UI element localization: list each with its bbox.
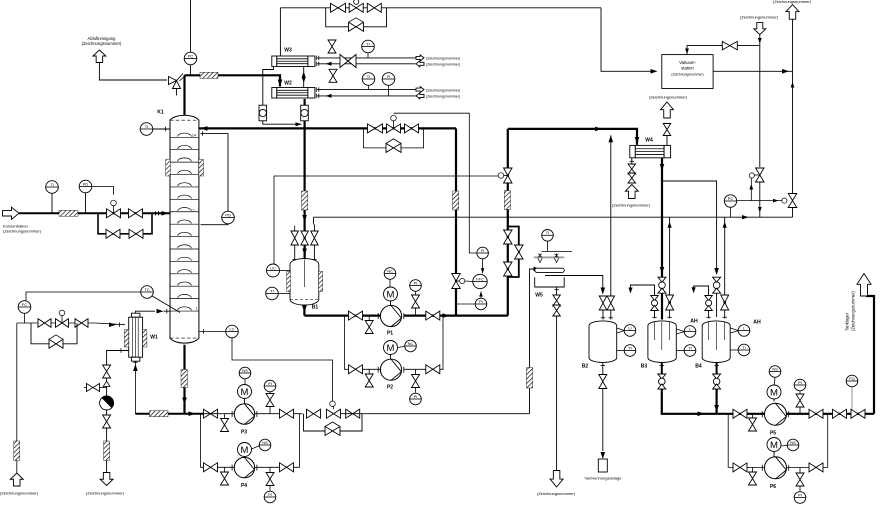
label AH B3 xyxy=(690,319,698,325)
svg-text:FC: FC xyxy=(22,302,27,307)
pipe: manifold to W1 xyxy=(95,322,125,327)
arrow bottoms down xyxy=(182,398,187,405)
instrument PD xyxy=(222,211,235,224)
valve feed block xyxy=(129,209,143,218)
pipe: TI W5 stub xyxy=(542,241,573,251)
Vakuum-station box xyxy=(662,55,713,89)
text (Zeichnungsnummer) W5 drain xyxy=(537,491,576,496)
pipe: B2 drain xyxy=(601,363,605,376)
instrument FI W2 xyxy=(382,73,395,86)
arrow feed into column xyxy=(162,211,169,216)
instrument PC (column pressure) xyxy=(184,52,197,65)
column K1 jacket hatch right xyxy=(199,160,204,177)
valve below PI P5 xyxy=(796,391,804,414)
pipe: B3 vent left lower xyxy=(652,311,656,319)
hatch on condensate drop xyxy=(302,191,308,210)
pump P3 xyxy=(232,404,257,424)
svg-text:P4: P4 xyxy=(241,483,247,489)
svg-text:NS: NS xyxy=(772,366,778,371)
svg-text:B2: B2 xyxy=(582,364,589,370)
hatch on feed line xyxy=(59,210,78,216)
text Verbrennungsanlage xyxy=(585,476,623,481)
column K1 shell xyxy=(170,115,199,343)
pipe LC tap xyxy=(199,329,226,333)
valve below PI P3 xyxy=(266,392,274,414)
vapor link W3-W2 xyxy=(302,67,306,88)
tray number 7 xyxy=(192,209,194,213)
pipe: feed manifold main xyxy=(98,212,152,214)
signal: FI to reflux control valve xyxy=(394,113,477,253)
svg-text:LC: LC xyxy=(229,326,234,331)
svg-text:M: M xyxy=(770,387,778,398)
pipe: W3 drain to trap xyxy=(263,67,274,106)
pipe: P2 suction branch xyxy=(345,316,381,370)
svg-text:TI: TI xyxy=(367,74,371,79)
pump P2 xyxy=(378,359,404,380)
text Konzentration xyxy=(3,224,42,234)
pipe: W5 outlet to B2 xyxy=(545,276,603,291)
control valve W3 (large) xyxy=(340,55,356,68)
hatch heating supply xyxy=(14,441,20,461)
hatch on overhead line xyxy=(200,72,218,78)
signal: PI to FFC xyxy=(479,292,483,299)
valve P1 discharge xyxy=(426,311,440,320)
svg-text:1: 1 xyxy=(195,307,197,311)
svg-text:TI: TI xyxy=(688,345,692,350)
instrument NS P5 xyxy=(769,366,781,385)
column K1 trays xyxy=(170,133,199,311)
valve W3 drain bottom xyxy=(329,69,337,82)
valve below PI P1 xyxy=(412,291,420,315)
control valve B1 mid xyxy=(301,231,309,245)
pipe: P2 discharge xyxy=(404,316,443,370)
svg-text:(Zeichnungsnummer): (Zeichnungsnummer) xyxy=(3,229,42,234)
vessel B1 xyxy=(290,259,319,305)
svg-text:AH: AH xyxy=(690,319,698,325)
pipe: P4 discharge xyxy=(255,414,300,468)
hatch B1 left xyxy=(287,272,291,292)
instrument PC vacuum xyxy=(724,195,736,207)
signal: LIC to distillate CV xyxy=(274,176,498,264)
W5 tube (capsule) xyxy=(535,268,565,272)
control valve FFC (reflux flow) xyxy=(452,274,465,289)
label W4 xyxy=(645,138,653,144)
pipe: PC to overhead line xyxy=(190,65,192,76)
signal: LC to bottoms CV xyxy=(232,338,333,401)
pipe: P6 discharge xyxy=(787,414,828,468)
pipe: B4 vent left lower xyxy=(706,311,710,319)
svg-text:TI: TI xyxy=(546,230,550,235)
svg-text:FQ: FQ xyxy=(849,376,855,381)
svg-text:(Zeichnungsnummer): (Zeichnungsnummer) xyxy=(426,88,460,92)
hatch on riser 456 xyxy=(453,191,459,210)
pipe: B4 vent left xyxy=(692,286,709,296)
svg-text:M: M xyxy=(387,343,395,354)
instrument TI (reflux) xyxy=(140,123,153,136)
svg-text:PI: PI xyxy=(798,380,802,385)
svg-text:Tanklager: Tanklager xyxy=(845,312,850,331)
pipe: P1 discharge xyxy=(404,315,456,317)
outline arrow up: W4 cooling inlet xyxy=(625,185,638,199)
arrow condensate down xyxy=(302,215,307,222)
valve B4 vent right xyxy=(721,295,729,310)
globe valve B4 feed xyxy=(713,277,721,293)
svg-text:M: M xyxy=(241,387,249,398)
pipe: B1 left inlet xyxy=(293,245,297,263)
svg-text:(Zeichnungsnummer): (Zeichnungsnummer) xyxy=(773,0,812,4)
valve W1 condensate xyxy=(103,365,111,378)
svg-text:P2: P2 xyxy=(387,384,393,390)
motor M P2 xyxy=(384,341,398,360)
svg-text:B1: B1 xyxy=(312,305,319,311)
pipe: B4 drain xyxy=(714,363,718,375)
heat exchanger W3 xyxy=(272,56,315,67)
pipe: product header (thick) xyxy=(717,413,874,415)
valve W1 condensate side xyxy=(84,384,107,392)
motor M P3 xyxy=(238,385,252,404)
condensate trap (half-filled) xyxy=(100,381,114,410)
svg-text:TI: TI xyxy=(742,345,746,350)
svg-text:P5: P5 xyxy=(770,431,776,437)
text Zeichnungsnummer W3 in xyxy=(426,63,460,67)
valve P2 drain xyxy=(365,369,373,387)
outline arrow down: vacuum break inlet xyxy=(754,23,766,35)
arrow to Verbrennungsanlage xyxy=(601,452,606,459)
svg-text:TI: TI xyxy=(628,345,632,350)
outline arrow up: vacuum exhaust xyxy=(786,5,799,20)
pipe: column top vapor riser xyxy=(183,75,185,115)
svg-text:(Zeichnungsnummer): (Zeichnungsnummer) xyxy=(671,73,703,77)
svg-text:K1: K1 xyxy=(157,110,164,116)
pipe: feed bypass loop xyxy=(98,213,152,234)
pipe: P6 suction branch xyxy=(728,414,765,468)
pipe: reflux bypass loop xyxy=(363,128,423,148)
pipe: riser to reflux header (thick) xyxy=(455,128,457,315)
pipe: FD stub xyxy=(85,193,87,214)
instrument NS P6 xyxy=(781,439,799,451)
hatch W1 left xyxy=(124,330,128,348)
instrument FD (feed flow) xyxy=(79,180,92,193)
svg-text:Vakuum-: Vakuum- xyxy=(679,60,696,65)
valve P1 suction xyxy=(349,311,363,320)
text (Zeichnungsnummer) condensate xyxy=(86,491,125,496)
label B1 xyxy=(312,305,319,311)
pipe: P4 suction branch xyxy=(201,414,235,468)
svg-text:P1: P1 xyxy=(387,331,393,337)
svg-text:TI: TI xyxy=(50,182,54,187)
pipe: bottoms bypass xyxy=(304,414,363,431)
pipe: to trap pump xyxy=(106,378,108,396)
svg-text:station: station xyxy=(681,66,694,71)
valve heating 2 xyxy=(75,319,88,328)
valve distillate block 2 xyxy=(504,262,513,276)
hatch bottoms header xyxy=(150,411,169,417)
pipe: W4 to B3 (thick) xyxy=(660,158,665,320)
svg-text:[Zeichnungsnummer]: [Zeichnungsnummer] xyxy=(740,15,778,20)
arrow B4 feed xyxy=(714,268,719,275)
pipe: W5 drain line down xyxy=(556,316,558,471)
signal: PI tap xyxy=(456,303,475,305)
valve P4 discharge xyxy=(280,463,294,472)
signal: PC branch to break CV xyxy=(749,178,753,200)
pipe: vacuum manifold long line xyxy=(314,216,793,218)
pipe: B2 inlets xyxy=(601,310,613,320)
instrument LC xyxy=(226,325,239,338)
TC sensing diagonal xyxy=(152,296,180,313)
pipe: vacuum line top xyxy=(280,7,601,9)
svg-text:PI: PI xyxy=(798,492,802,497)
pipe: FC to manifold xyxy=(24,313,26,323)
instrument LI B2 xyxy=(624,325,636,337)
valve W5 drain double xyxy=(553,295,561,316)
text Tanklager vertical xyxy=(845,291,856,331)
instrument PI P6 xyxy=(794,486,806,503)
text (Zeichnungsnummer) exhaust top xyxy=(773,0,812,4)
pipe: bottoms header xyxy=(135,411,203,416)
valve vacuum 2 xyxy=(367,3,381,12)
svg-text:W5: W5 xyxy=(535,293,543,299)
pipe: B2 vent riser xyxy=(609,135,614,296)
svg-text:PI: PI xyxy=(414,394,418,399)
svg-text:M: M xyxy=(387,289,395,300)
pipe: station top branch xyxy=(685,46,759,55)
pipe L B4 stub xyxy=(730,328,738,333)
instrument TI (feed) xyxy=(46,181,59,194)
heat exchanger W1 xyxy=(129,313,143,361)
label AH B4 xyxy=(753,320,761,326)
tray number 14 xyxy=(192,133,196,137)
pipe: condensate drain line xyxy=(106,428,108,472)
pipe: feed into column xyxy=(152,211,170,215)
svg-text:FI: FI xyxy=(481,248,485,253)
pipe: B3 drain xyxy=(660,363,664,375)
heat exchanger W4 xyxy=(630,145,671,157)
text Abluftreinigung xyxy=(82,36,122,46)
instrument TI W2 xyxy=(362,73,375,86)
pipe: W3 vent riser xyxy=(279,8,281,56)
W3 cooling in line xyxy=(316,62,415,66)
pipe: P3 line xyxy=(203,413,235,415)
pipe TI stub W2 xyxy=(368,85,370,89)
instrument PI (FFC) xyxy=(475,298,487,310)
svg-text:PD: PD xyxy=(225,212,231,217)
valve P6 drain xyxy=(749,467,757,485)
svg-text:FFC: FFC xyxy=(476,277,484,281)
arrow into W5 xyxy=(534,267,541,272)
pipe: feed line xyxy=(19,212,98,214)
valve feed bypass 1 xyxy=(106,229,120,238)
globe valve B3 drain xyxy=(658,374,666,389)
pipe: B2 drain line xyxy=(602,389,604,452)
valve P2 discharge xyxy=(426,365,440,374)
spray header W5 xyxy=(534,254,564,263)
text Zeichnungsnummer W3 out xyxy=(426,57,460,61)
signal: TC to FC xyxy=(26,292,141,301)
svg-text:P6: P6 xyxy=(770,484,776,490)
valve bottoms block 2 xyxy=(346,409,360,418)
valve P5 discharge xyxy=(809,409,823,418)
valve reflux 1 xyxy=(368,124,383,133)
valve product 2 xyxy=(851,409,865,418)
svg-text:TI: TI xyxy=(145,124,149,129)
valve P6 discharge xyxy=(809,463,823,472)
valve B2 feed xyxy=(599,296,607,310)
signal FQ tap xyxy=(851,387,853,414)
valve bottoms block xyxy=(307,409,321,418)
valve P6 suction xyxy=(733,463,747,472)
pipe: B4 feed branch xyxy=(662,181,717,271)
pipe: vacuum break line xyxy=(758,35,762,167)
instrument FC xyxy=(18,301,31,314)
valve P3 discharge xyxy=(280,409,294,418)
label W1 xyxy=(150,335,158,341)
text (Zeichnungsnummer) bottom far left xyxy=(0,491,39,496)
pipe: PD upper tap xyxy=(201,131,229,211)
svg-text:(Zeichnungsnummer): (Zeichnungsnummer) xyxy=(426,63,460,67)
W5 collection tray xyxy=(535,277,565,287)
pipe: W4 vent xyxy=(666,136,668,146)
instrument L B3 xyxy=(684,326,696,338)
svg-text:(Zeichnungsnummer): (Zeichnungsnummer) xyxy=(82,41,122,46)
pipe: discharge to distillate riser (thick) xyxy=(456,315,508,317)
valve below P6 xyxy=(796,467,804,486)
pipe: B1 outlet xyxy=(302,306,307,316)
valve P1 drain xyxy=(365,316,373,334)
svg-text:PI: PI xyxy=(268,381,272,386)
svg-text:PC: PC xyxy=(728,196,734,201)
pipe: B3 vent left xyxy=(628,285,654,296)
instrument TI B3 xyxy=(676,345,696,357)
instrument NC P1 xyxy=(384,268,396,287)
signal: PC to manifold CV xyxy=(737,199,782,203)
pump P1 xyxy=(378,305,404,326)
pipe: W5 drain xyxy=(554,287,558,295)
pipe TI B1 stub xyxy=(278,293,290,295)
instrument TI B4 xyxy=(730,344,750,356)
svg-text:7: 7 xyxy=(192,209,194,213)
valve B2 drain xyxy=(599,375,607,389)
instrument NS P3 xyxy=(239,367,251,384)
valve below P4 xyxy=(266,467,274,485)
pipe: PD lower tap xyxy=(201,223,229,226)
motor M P6 xyxy=(767,438,781,457)
pipe: vacuum exhaust riser xyxy=(792,19,794,71)
globe valve B3 feed xyxy=(658,277,666,293)
control valve feed xyxy=(107,200,121,218)
svg-text:(Zeichnungsnummer): (Zeichnungsnummer) xyxy=(851,291,856,331)
outline arrow down: condensate out xyxy=(100,473,113,486)
pipe: TI feed stub xyxy=(51,193,53,213)
pipe: heating manifold xyxy=(17,322,95,324)
label W3 xyxy=(284,48,292,54)
signal: PC bottom stub xyxy=(730,207,732,217)
valve P3 drain xyxy=(221,414,229,432)
valve reflux bypass (roof) xyxy=(386,139,401,153)
label P3 xyxy=(241,430,247,436)
control valve vacuum xyxy=(349,0,363,12)
pipe: trap outlet xyxy=(106,410,108,416)
pipe: P3 discharge xyxy=(255,413,303,415)
pipe: PC stub above overhead xyxy=(190,0,192,52)
outline arrow up: W4 vent out xyxy=(661,102,674,118)
arrow B3 feed xyxy=(660,267,665,274)
pipe: heating supply riser xyxy=(16,323,18,473)
pipe: vacuum bypass loop xyxy=(326,8,387,27)
svg-text:W4: W4 xyxy=(645,138,653,144)
svg-text:NS: NS xyxy=(262,440,268,445)
instrument NC P2 xyxy=(398,340,417,352)
steam trap W2 drain xyxy=(301,105,309,121)
svg-text:(Zeichnungsnummer): (Zeichnungsnummer) xyxy=(0,491,39,496)
pipe: vent line to Abluftreinigung xyxy=(99,63,167,81)
instrument L B4 xyxy=(738,325,750,337)
valve W4 drain double xyxy=(628,164,636,183)
outline arrow down: W5 drain out xyxy=(550,471,563,488)
label B2 xyxy=(582,364,589,370)
svg-text:B3: B3 xyxy=(641,364,648,370)
outline arrow W3 in xyxy=(416,61,424,67)
svg-text:(Zeichnungsnummer): (Zeichnungsnummer) xyxy=(649,95,688,100)
valve W3 vent top xyxy=(328,40,336,53)
valve reflux 2 xyxy=(405,124,419,133)
pipe: manifold to B1 right valve xyxy=(313,217,316,231)
valve W4 vent xyxy=(663,124,671,136)
text Vakuum-station xyxy=(671,60,703,77)
pipe: manifold riser to station xyxy=(791,71,795,193)
pipe L B3 stub xyxy=(676,329,684,334)
control valve bottoms xyxy=(327,401,341,418)
globe valve B4 drain xyxy=(713,374,721,389)
pipe: W1 bottom feed xyxy=(133,361,138,414)
pipe: heating bypass xyxy=(31,323,77,344)
valve P5 suction xyxy=(733,409,747,418)
svg-text:NC: NC xyxy=(387,268,393,273)
label W2 xyxy=(284,81,292,87)
valve feed bypass 2 xyxy=(129,229,143,238)
svg-text:AH: AH xyxy=(753,320,761,326)
column K1 jacket hatch left xyxy=(166,160,171,177)
vessel B4 xyxy=(702,321,730,363)
instrument PI P2 xyxy=(410,388,422,405)
hatch on distillate riser xyxy=(504,191,510,210)
pipe: B3 drain to header (thick) xyxy=(662,389,717,416)
instrument NS P4 xyxy=(252,439,271,451)
valve below P2 xyxy=(412,369,420,387)
control valve vacuum break xyxy=(749,168,764,182)
valve distillate block 1 xyxy=(504,230,513,244)
pipe: vacuum break to manifold xyxy=(758,182,762,217)
hatch W1 right xyxy=(143,330,147,348)
label P4 xyxy=(241,483,247,489)
vessel B2 xyxy=(589,321,617,362)
valve station top xyxy=(722,41,737,50)
pipe: bottoms to W5 xyxy=(341,413,530,415)
valve distillate bypass xyxy=(515,245,524,259)
valve P3 suction xyxy=(204,409,218,418)
label W5 xyxy=(535,293,543,299)
text (Zeichnungsnummer) W4 vent xyxy=(649,95,688,100)
valve condensate bottom xyxy=(103,415,111,428)
svg-text:NS: NS xyxy=(790,440,796,445)
instrument FFC xyxy=(473,274,487,288)
valve product 1 xyxy=(833,409,847,418)
valve bottoms bypass (roof) xyxy=(325,422,340,436)
svg-text:NS: NS xyxy=(242,368,248,373)
label B4 xyxy=(695,364,702,370)
valve B3 vent right xyxy=(666,295,674,310)
svg-text:(Zeichnungsnummer): (Zeichnungsnummer) xyxy=(86,491,125,496)
arrow into W2 xyxy=(278,80,283,87)
